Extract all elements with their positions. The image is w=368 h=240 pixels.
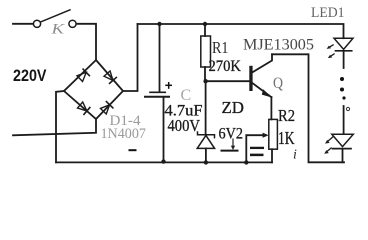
junction dot top rail capacitor — [157, 22, 161, 26]
current arrow near zener — [231, 139, 235, 151]
junction dot bottom rail zener — [204, 160, 208, 164]
svg-text:1N4007: 1N4007 — [101, 126, 147, 142]
svg-text:220V: 220V — [13, 67, 47, 85]
svg-text:400V: 400V — [168, 116, 201, 135]
resistor R1 top lead — [204, 24, 206, 36]
diode D2 top-right of bridge — [104, 71, 117, 84]
junction dot base node — [203, 79, 207, 83]
svg-text:K: K — [50, 22, 66, 38]
resistor R2 body — [269, 119, 278, 149]
capacitor C top lead — [159, 24, 161, 92]
capacitor C2 top plate — [250, 147, 264, 149]
transistor Q emitter lead down — [270, 97, 272, 119]
capacitor C top plate — [150, 91, 165, 93]
potentiometer wiper arrowhead — [263, 133, 269, 138]
LED1 emission arrow upper — [327, 45, 334, 49]
svg-text:R2: R2 — [278, 106, 295, 125]
LED1 triangle — [334, 38, 353, 49]
svg-text:270K: 270K — [209, 58, 242, 75]
zener diode ZD triangle — [197, 135, 214, 148]
switch K terminal circle left — [33, 20, 40, 27]
svg-text:LED1: LED1 — [311, 5, 345, 21]
zener diode ZD bar — [198, 132, 215, 138]
capacitor plus sign — [165, 82, 172, 89]
LED1 lead top — [343, 37, 345, 39]
LED2 triangle — [332, 134, 354, 146]
wire top positive rail — [138, 24, 344, 38]
LED2 emission arrow upper — [325, 136, 333, 143]
wire base node to zener — [205, 81, 207, 134]
LED2 emission arrow lower — [324, 148, 331, 154]
wire switch to bridge top — [77, 24, 96, 60]
resistor R1 bottom lead — [204, 67, 206, 81]
LED1 emission arrow lower — [328, 54, 335, 59]
LED2 bottom lead — [342, 149, 344, 162]
wire 220V bottom lead to bridge bottom — [13, 119, 96, 135]
wire collector to LED return — [272, 54, 344, 162]
svg-text:1K: 1K — [278, 128, 295, 148]
svg-text:6V2: 6V2 — [219, 126, 244, 143]
transistor Q base bar — [249, 66, 252, 91]
svg-text:MJE13005: MJE13005 — [243, 37, 314, 54]
small circle artifact above LED2 — [346, 107, 349, 110]
capacitor C bottom plate — [145, 96, 169, 98]
svg-text:C: C — [181, 87, 192, 104]
bridge minus sign — [129, 149, 137, 151]
potentiometer wiper wire — [246, 135, 265, 162]
svg-text:R1: R1 — [212, 38, 229, 57]
svg-text:i: i — [293, 148, 297, 163]
resistor R2 bottom lead — [271, 149, 273, 162]
junction dot bottom rail capacitor — [161, 159, 165, 163]
wire 220V top lead — [13, 23, 33, 25]
wire base node to transistor — [206, 80, 250, 82]
LED1 cathode bar — [336, 50, 352, 52]
zener diode ZD bottom lead — [205, 148, 207, 162]
svg-text:Q: Q — [273, 75, 283, 92]
wire bridge right vertex to top rail — [123, 24, 138, 91]
resistor R1 body — [201, 36, 211, 67]
LED string continuation dots — [340, 77, 344, 81]
capacitor C2 bottom plate — [250, 154, 264, 157]
wire bridge left vertex to bottom rail — [56, 91, 64, 162]
transistor Q emitter arrowhead — [262, 89, 272, 97]
switch K lever — [41, 10, 70, 22]
LED1 bottom lead — [343, 51, 345, 68]
LED string lead to LED2 — [343, 106, 345, 134]
LED2 cathode bar — [333, 148, 352, 150]
diode D4 bottom-right of bridge — [100, 102, 113, 115]
capacitor C bottom lead — [163, 97, 165, 162]
junction dot top rail R1 — [203, 22, 207, 26]
transistor Q emitter wire — [253, 83, 272, 97]
junction dot bottom rail wiper — [244, 160, 248, 164]
wire bottom negative rail — [56, 161, 272, 163]
bar mark below 6V2 — [221, 150, 239, 152]
transistor Q collector wire — [253, 54, 272, 72]
svg-text:ZD: ZD — [222, 98, 245, 117]
diode D3 bottom-left of bridge — [77, 102, 90, 115]
bridge rectifier diamond edges — [64, 60, 123, 119]
diode D1 top-left of bridge — [77, 69, 90, 82]
switch K terminal circle right — [69, 20, 76, 27]
